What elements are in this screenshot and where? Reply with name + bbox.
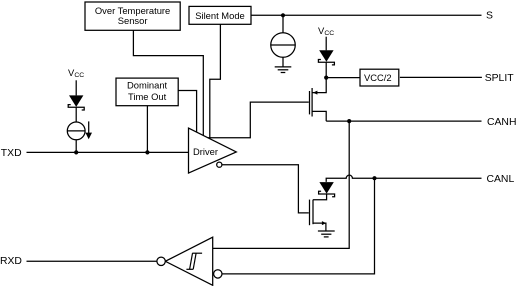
box: Dominant Time Out: [116, 78, 178, 106]
wire: silent mode to driver top: [210, 24, 221, 138]
svg-text:Time Out: Time Out: [128, 91, 167, 102]
svg-text:CC: CC: [74, 72, 84, 79]
comparator: receiver with hysteresis: [165, 237, 212, 285]
wire: CANL line with hop: [326, 175, 481, 182]
box: VCC/2: [360, 69, 399, 86]
wire: D2 to VCC/2 node: [325, 62, 327, 77]
svg-text:Driver: Driver: [193, 146, 218, 157]
wire: CANH line: [326, 120, 481, 122]
wire: over-temp sensor to driver top: [133, 30, 203, 135]
wire: dominant time out to driver top: [178, 91, 196, 133]
box: Over Temperature Sensor: [85, 2, 180, 30]
wire: Vcc to diode D2: [325, 37, 327, 51]
svg-text:TXD: TXD: [1, 148, 22, 159]
transistor Q2 (NMOS low side): [310, 200, 327, 231]
svg-text:VCC/2: VCC/2: [364, 72, 392, 83]
wire: S line: [251, 14, 482, 16]
svg-text:Sensor: Sensor: [118, 15, 148, 26]
wire: node to VCC/2 box: [326, 77, 360, 79]
box: Silent Mode: [189, 6, 251, 24]
svg-text:RXD: RXD: [0, 256, 22, 267]
label Vcc (right): [318, 25, 334, 37]
diode D3 (zener, CANL clamp): [319, 182, 335, 197]
transistor Q1 (PMOS high side): [310, 78, 327, 122]
wire: D1 to current source I1: [75, 107, 77, 122]
ground under Q2: [318, 231, 335, 237]
node: TXD/DTO junction: [145, 150, 149, 154]
diode D2 (zener, right top): [318, 50, 334, 65]
svg-text:CANL: CANL: [487, 174, 515, 185]
wire: D3 to NMOS drain: [313, 194, 327, 200]
node: CANL junction: [372, 176, 376, 180]
svg-text:Dominant: Dominant: [127, 80, 168, 91]
wire: Vcc to diode D1: [75, 80, 77, 95]
svg-text:S: S: [486, 11, 493, 22]
wire: RXD line: [27, 260, 157, 262]
wire: VCC/2 box to SPLIT pin: [400, 76, 482, 78]
svg-text:Silent Mode: Silent Mode: [195, 10, 245, 21]
node: driver inverted output bubble: [217, 162, 222, 167]
node: CANH junction: [347, 119, 351, 123]
wire: driver inverted output to NMOS gate: [222, 165, 309, 213]
svg-text:CC: CC: [324, 30, 334, 37]
wire: TXD line: [27, 151, 189, 153]
ground under I2: [275, 67, 292, 73]
wire: driver output to PMOS gate: [208, 102, 309, 138]
current source I1: [67, 121, 92, 139]
node: receiver output bubble: [157, 257, 165, 265]
wire: CANH to receiver input: [213, 121, 350, 248]
svg-text:SPLIT: SPLIT: [485, 73, 515, 84]
wire: I1 to TXD line: [75, 140, 77, 153]
node: S line junction: [281, 13, 285, 17]
label Vcc (left): [68, 67, 84, 79]
op-amp: Driver: [189, 128, 237, 173]
diode D1 (zener, left): [68, 95, 84, 110]
node: TXD/I1 junction: [74, 150, 78, 154]
node: VCC/2 junction: [324, 76, 328, 80]
current source I2 (mode pin): [271, 15, 296, 66]
svg-text:CANH: CANH: [487, 117, 516, 128]
wire: dominant time out to TXD line: [146, 106, 148, 153]
wire: receiver inverting input to CANL: [222, 178, 375, 274]
node: receiver inverting input bubble: [214, 270, 222, 278]
